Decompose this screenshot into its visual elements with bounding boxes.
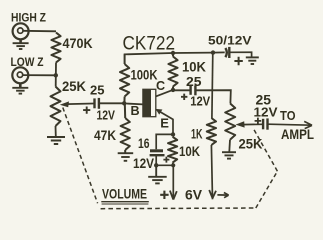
wire R7 to battery arrow [211,145,212,199]
polarity + of C1 [83,107,90,114]
ganged control dashed link bottom [101,207,256,210]
svg-text:50/12V: 50/12V [208,33,252,47]
node C collector junction dot [171,88,175,92]
wire C5 to emitter return node [155,156,157,165]
svg-text:1K: 1K [191,126,203,141]
capacitor C2 50/12V decoupling [225,47,229,58]
battery terminal arrow (plus side) [170,191,177,200]
output wire with arrow TO AMPL [269,121,313,128]
potentiometer R8 25K (output level) [225,104,235,140]
svg-text:16: 16 [138,136,150,151]
svg-text:12V: 12V [254,105,278,120]
wire emitter node to C5 [156,134,173,149]
svg-text:12V: 12V [97,108,116,123]
emitter return junction dot [154,163,158,167]
rail junction dot at R5 top [171,51,175,55]
ground at R8 [222,152,236,158]
wire J2 to node A [23,74,56,76]
wiper arrow of R2 [60,101,94,107]
svg-text:100K: 100K [131,67,158,82]
polarity + of C5 [163,157,169,163]
svg-text:HIGH Z: HIGH Z [11,11,46,25]
svg-text:12V: 12V [190,94,210,109]
svg-text:47K: 47K [94,127,116,143]
input jack J2 LOW Z [12,67,28,87]
polarity + of C4 [255,118,262,125]
svg-text:10K: 10K [182,58,206,74]
junction dot R6 bottom [171,163,175,167]
resistor R1 470K [51,33,60,63]
resistor R3 100K [120,54,129,103]
svg-text:25K: 25K [62,79,86,94]
transistor Q1 body [143,89,156,116]
ganged control dashed link right lower [256,171,278,208]
emitter node junction dot [171,132,175,136]
wire C1 to node B (base node) [100,102,124,104]
battery terminal arrow (rail side) [209,190,216,198]
node B junction dot [122,101,126,105]
ganged control dashed link right upper [254,129,278,171]
collector wire of Q1 [156,90,173,97]
base wire into Q1 [124,103,143,104]
svg-text:25: 25 [186,74,202,89]
rail junction dot at R7 top [211,50,215,54]
wire C3 to R8 top (crosses R7 feed) [196,90,230,103]
wire collector node to C3 [173,89,190,91]
potentiometer R2 25K (volume, input) [51,87,61,127]
capacitor C1 25/12V coupling [95,98,99,109]
wire R8 to ground [228,140,231,152]
resistor R4 47K [121,103,130,153]
svg-text:C: C [156,79,165,93]
capacitor C3 25/12V output coupling [191,85,196,95]
top supply rail wire [124,52,225,54]
wire R1 to node A [55,63,57,87]
svg-text:CK722: CK722 [123,34,176,55]
wire C2 to ground stub [230,52,251,57]
wiper arrow of R8 [236,121,263,127]
svg-text:TO: TO [280,108,296,123]
polarity + of C3 [181,94,187,100]
svg-text:AMPL: AMPL [281,127,314,142]
svg-text:E: E [160,115,169,130]
capacitor C4 25/12V to amplifier [263,118,267,129]
capacitor C5 16/12V emitter bypass [150,151,165,155]
ground at R4 [118,153,134,161]
resistor R6 10K emitter [168,137,177,163]
svg-text:VOLUME: VOLUME [102,186,147,201]
wire R6 to emitter return and battery plus [156,163,173,200]
svg-text:6V: 6V [185,187,203,203]
node A junction dot [54,73,58,77]
svg-text:LOW Z: LOW Z [11,55,44,69]
ground at J1 [13,43,29,49]
resistor R5 10K collector load [168,53,177,90]
ganged control dashed link left [63,108,98,204]
svg-text:470K: 470K [63,35,93,51]
polarity + of C2 [234,57,242,65]
underline of VOLUME [101,202,149,204]
resistor R7 1K [207,118,216,145]
wire J1 to R1 top [23,30,56,33]
wire R2 bottom to ground [55,126,57,137]
small arrow to battery minus [217,193,228,198]
svg-text:12V: 12V [133,156,154,171]
ground at R2 [47,137,65,144]
svg-text:B: B [131,104,140,118]
ground at C2 [246,57,259,64]
emitter wire of Q1 with arrow [156,109,174,134]
input jack J1 HIGH Z [13,23,29,43]
wire rail to R7 1K [211,53,214,118]
ground at J2 [12,88,28,94]
polarity + battery [160,191,168,199]
ground at emitter return [148,165,167,183]
svg-text:25: 25 [90,82,105,97]
svg-text:10K: 10K [179,143,200,159]
